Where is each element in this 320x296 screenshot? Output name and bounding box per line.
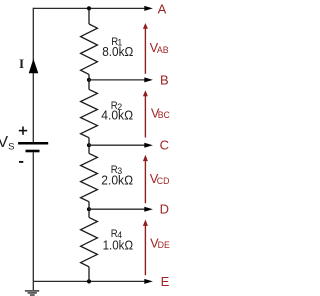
resistor R1 bbox=[81, 8, 98, 80]
wire bottom (node E rail) bbox=[33, 279, 153, 284]
VBC arrow bbox=[143, 90, 148, 137]
label VCD bbox=[150, 171, 170, 186]
label R3 bbox=[111, 163, 123, 176]
VCD arrow bbox=[143, 155, 148, 204]
svg-text:4.0kΩ: 4.0kΩ bbox=[101, 107, 133, 122]
VDE arrow bbox=[143, 220, 148, 276]
wire left upper bbox=[32, 8, 34, 142]
wire left lower bbox=[32, 152, 34, 281]
ground bbox=[25, 281, 39, 295]
label R2 bbox=[111, 99, 123, 112]
junction dot node E bbox=[87, 279, 91, 283]
label VAB bbox=[150, 40, 169, 55]
node D arrow bbox=[89, 207, 153, 212]
VAB arrow bbox=[143, 23, 148, 74]
node C arrow bbox=[89, 143, 153, 148]
junction dot node A bbox=[87, 6, 91, 10]
svg-text:DE: DE bbox=[158, 240, 170, 250]
svg-text:E: E bbox=[161, 274, 170, 289]
svg-text:D: D bbox=[160, 202, 169, 217]
svg-text:CD: CD bbox=[157, 176, 170, 186]
svg-text:BC: BC bbox=[158, 110, 170, 120]
battery V_S source bbox=[18, 143, 48, 151]
resistor R2 bbox=[81, 80, 98, 145]
svg-text:A: A bbox=[158, 1, 167, 16]
wire top (node A rail) bbox=[33, 6, 153, 11]
junction dot node B bbox=[87, 78, 91, 82]
current arrow I bbox=[29, 59, 39, 74]
svg-text:AB: AB bbox=[157, 45, 169, 55]
node B arrow bbox=[89, 77, 153, 82]
label VBC bbox=[151, 105, 171, 120]
svg-text:1.0kΩ: 1.0kΩ bbox=[103, 237, 134, 252]
label VDE bbox=[150, 235, 170, 250]
svg-text:C: C bbox=[160, 138, 169, 153]
svg-text:I: I bbox=[19, 56, 24, 71]
svg-text:B: B bbox=[160, 73, 169, 88]
svg-text:8.0kΩ: 8.0kΩ bbox=[102, 44, 133, 59]
svg-text:2.0kΩ: 2.0kΩ bbox=[101, 172, 133, 187]
junction dot node D bbox=[87, 207, 91, 211]
battery minus sign bbox=[19, 161, 23, 163]
resistor R4 bbox=[81, 209, 98, 281]
junction dot node C bbox=[87, 143, 91, 147]
battery plus sign bbox=[19, 127, 27, 135]
resistor R3 bbox=[81, 145, 98, 209]
label R4 bbox=[111, 227, 123, 240]
label R1 bbox=[111, 35, 122, 48]
